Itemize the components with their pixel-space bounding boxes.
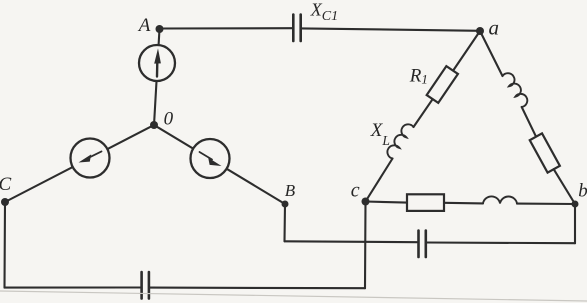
wire coil to resistor (a-b) — [522, 107, 536, 137]
inductor c-b branch — [483, 196, 517, 203]
svg-text:C: C — [0, 174, 12, 195]
svg-text:0: 0 — [164, 109, 174, 130]
wire B down — [283, 204, 286, 241]
wire XL to c (delta side a-c lower) — [366, 159, 393, 202]
wire A to O (phase A leg) — [154, 29, 160, 125]
svg-text:c: c — [351, 179, 360, 201]
inductor a-b branch — [503, 73, 528, 107]
source phase A (EMF circle with up arrow) — [139, 45, 175, 81]
node b — [572, 201, 579, 208]
wire R1 to XL — [414, 99, 433, 127]
svg-text:A: A — [137, 15, 151, 36]
wire c to resistor (delta side c-b) — [366, 202, 407, 203]
capacitor B-b rail — [419, 231, 426, 258]
capacitor XC1 — [293, 15, 300, 41]
svg-text:B: B — [285, 181, 296, 200]
wire A to XC1 — [160, 27, 293, 29]
wire capacitor to b leg — [427, 241, 575, 244]
node C — [1, 198, 9, 206]
resistor c-b branch — [407, 194, 444, 211]
wire resistor to coil (c-b) — [444, 202, 483, 205]
wire coil to b (delta side c-b) — [517, 203, 575, 205]
svg-text:a: a — [489, 15, 500, 39]
inductor XL — [387, 124, 413, 158]
resistor R1 — [427, 66, 458, 103]
resistor a-b branch — [530, 133, 560, 172]
wire XC1 to node a — [302, 28, 480, 30]
wire O to C (phase C leg) — [5, 125, 154, 202]
wire C down to bottom rail — [3, 202, 6, 288]
capacitor C-c bottom rail — [142, 272, 149, 299]
wire up to node b — [574, 204, 576, 243]
wire bottom rail left of capacitor — [5, 286, 141, 288]
node B — [282, 201, 289, 208]
wire a to coil (delta side a-b upper) — [480, 31, 503, 76]
source phase B (EMF circle, arrow toward B) — [191, 139, 230, 178]
svg-text:b: b — [578, 181, 587, 202]
wire resistor to b (delta side a-b lower) — [554, 169, 575, 204]
node A — [156, 25, 164, 33]
wire O to B (phase B leg) — [154, 125, 285, 204]
wire B rail to capacitor — [285, 240, 418, 243]
wire bottom rail right of capacitor — [150, 287, 365, 290]
node c — [362, 198, 370, 206]
node a — [476, 27, 484, 35]
node O — [150, 121, 158, 129]
wire bottom rail up to node c — [364, 202, 367, 288]
source phase C (EMF circle, arrow toward C) — [71, 139, 110, 178]
wire a to R1 (delta side a-c upper) — [454, 31, 480, 70]
